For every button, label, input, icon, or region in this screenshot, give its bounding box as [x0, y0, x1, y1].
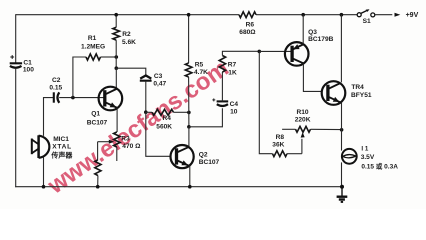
node R3 leg / ground rail: [96, 185, 100, 189]
svg-text:BC107: BC107: [87, 120, 108, 127]
svg-text:R7: R7: [228, 62, 237, 69]
wire Q3 emitter to rail: [302, 15, 304, 44]
wire C3 junction to Q2 base: [146, 112, 171, 156]
svg-text:XTAL: XTAL: [52, 143, 72, 150]
capacitor C4: [212, 72, 238, 116]
svg-text:1K: 1K: [228, 70, 237, 77]
wire Q1 emitter: [116, 108, 118, 133]
resistor R3 lower section (wiper leg): [95, 142, 101, 187]
svg-text:传声器: 传声器: [50, 151, 73, 160]
svg-text:4.7K: 4.7K: [194, 69, 208, 76]
wire C2 to Q1 base: [59, 97, 104, 99]
node R2/C3/Q1 collector junction: [115, 66, 119, 70]
transistor TR4: [322, 81, 372, 105]
wire bottom ground rail: [15, 186, 342, 188]
svg-text:C2: C2: [52, 77, 61, 84]
wire junction to Q2 collector: [188, 127, 190, 146]
resistor R4: [146, 109, 189, 130]
node R10/TR4 emitter junction: [340, 128, 344, 132]
svg-text:36K: 36K: [272, 142, 284, 149]
svg-text:Q3: Q3: [308, 29, 317, 36]
svg-text:BFY51: BFY51: [351, 92, 372, 99]
resistor R1: [73, 35, 116, 98]
node mic / ground rail: [42, 185, 46, 189]
svg-text:R6: R6: [246, 22, 255, 29]
node C3/R4/Q2 base junction: [144, 110, 148, 114]
potentiometer R10: [282, 109, 342, 154]
svg-text:560K: 560K: [156, 123, 172, 130]
node rail/R2: [114, 13, 118, 17]
resistor R7: [219, 51, 259, 76]
resistor R5: [185, 15, 208, 127]
svg-text:680Ω: 680Ω: [239, 29, 256, 36]
microphone MIC1: [32, 135, 74, 159]
svg-text:100: 100: [23, 67, 34, 74]
svg-text:R4: R4: [163, 115, 172, 122]
svg-text:+9V: +9V: [406, 12, 419, 19]
wire lamp to ground rail: [341, 162, 343, 186]
svg-text:1.2MEG: 1.2MEG: [81, 43, 105, 50]
capacitor C2: [49, 77, 62, 103]
wire Q3 collector to TR4 base: [303, 64, 321, 92]
node rail/R5: [187, 13, 191, 17]
wire TR4 collector to rail: [340, 15, 342, 83]
node R4/R5 junction: [187, 111, 191, 115]
svg-text:3.5V: 3.5V: [361, 154, 375, 161]
wire Q2 emitter to ground rail: [189, 166, 191, 187]
svg-text:0,47: 0,47: [153, 80, 166, 87]
svg-text:C3: C3: [154, 73, 163, 80]
svg-text:R8: R8: [276, 134, 285, 141]
wire mic branch: [44, 98, 54, 136]
svg-text:R1: R1: [88, 35, 97, 42]
svg-text:0.15: 0.15: [49, 84, 62, 91]
svg-text:5.6K: 5.6K: [122, 39, 136, 46]
capacitor C3: [116, 68, 166, 112]
svg-text:S1: S1: [363, 18, 371, 25]
wire Q3 base to R8: [259, 51, 272, 153]
node rail/Q3 emitter: [301, 13, 305, 17]
watermark www.elecfans.com: [42, 55, 233, 200]
svg-text:Q1: Q1: [91, 111, 100, 118]
node rail/TR4 collector: [340, 13, 344, 17]
svg-text:BC107: BC107: [199, 159, 220, 166]
wire top supply rail: [16, 14, 239, 16]
svg-text:MIC1: MIC1: [53, 136, 69, 143]
node R1/R2 junction: [115, 55, 119, 59]
resistor R2: [113, 15, 136, 68]
potentiometer R3: [98, 132, 142, 161]
node Q2 emitter / ground rail: [188, 185, 192, 189]
resistor R6: [239, 12, 256, 36]
supply +9V: [375, 12, 419, 19]
svg-text:R10: R10: [297, 109, 309, 116]
ground: [337, 187, 348, 202]
svg-text:220K: 220K: [295, 117, 311, 124]
svg-text:R3: R3: [121, 136, 130, 143]
svg-text:10: 10: [230, 109, 238, 116]
svg-text:BC179B: BC179B: [308, 36, 334, 43]
svg-text:R5: R5: [195, 61, 204, 68]
node collector Q2 / C4 branch junction: [187, 125, 191, 129]
transistor Q3: [259, 29, 333, 66]
svg-text:470 Ω: 470 Ω: [122, 143, 141, 150]
switch S1: [357, 9, 375, 25]
node lamp / ground rail: [340, 185, 344, 189]
wire Q2 collector junction to C4: [189, 108, 223, 127]
node R7/Q3 base/R8 junction: [258, 50, 262, 54]
wire TR4 emitter to lamp: [341, 103, 343, 151]
wire left rail: [15, 14, 17, 63]
wire junction to Q1 collector: [115, 68, 117, 88]
transistor Q1: [87, 87, 123, 127]
node C2/R1 junction: [71, 96, 75, 100]
transistor Q2: [171, 145, 220, 168]
svg-text:C4: C4: [230, 101, 239, 108]
svg-text:Q2: Q2: [199, 151, 208, 158]
svg-text:I 1: I 1: [361, 145, 368, 152]
svg-text:R2: R2: [122, 31, 131, 38]
resistor R8: [272, 134, 302, 156]
svg-text:TR4: TR4: [351, 84, 364, 91]
lamp I1: [342, 145, 398, 170]
capacitor C1: [10, 55, 35, 73]
svg-text:0.15 或 0.3A: 0.15 或 0.3A: [361, 161, 398, 170]
